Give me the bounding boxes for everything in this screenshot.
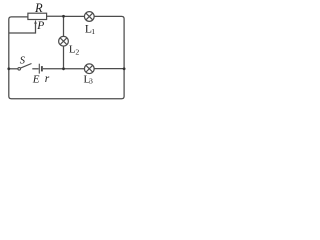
lamp L2 xyxy=(59,36,69,46)
battery E short plate xyxy=(41,66,43,71)
wire node to lamp L2 top xyxy=(63,16,65,36)
wire node to lamp L1 xyxy=(64,15,85,17)
svg-text:r: r xyxy=(45,73,50,85)
wire left rail lower + bottom + right rail lower xyxy=(9,69,124,99)
wire left rail to switch xyxy=(9,68,18,70)
wire right rail upper + top-right xyxy=(94,16,124,68)
wire lamp L2 bottom to junction xyxy=(63,46,65,69)
wire lamp L3 to right rail xyxy=(94,68,124,70)
node center junction (dot) xyxy=(62,67,65,70)
battery E long plate xyxy=(38,64,40,74)
lamp L3 xyxy=(84,64,94,74)
svg-text:2: 2 xyxy=(75,47,79,56)
svg-text:3: 3 xyxy=(89,77,93,86)
wire top-left + left rail upper xyxy=(9,17,28,69)
svg-text:S: S xyxy=(20,55,26,66)
wire slider branch xyxy=(9,23,36,33)
svg-text:P: P xyxy=(36,20,44,32)
svg-text:E: E xyxy=(32,74,40,86)
node right rail (junction dot) xyxy=(123,67,126,70)
lamp L1 xyxy=(84,12,94,22)
slider arrow P xyxy=(34,20,37,24)
svg-text:R: R xyxy=(34,1,43,15)
node top (junction dot) xyxy=(62,15,65,18)
switch S xyxy=(18,64,32,71)
svg-text:1: 1 xyxy=(91,27,95,36)
wire junction to lamp L3 xyxy=(64,68,85,70)
resistor R (rheostat box) xyxy=(28,13,47,19)
wire switch to battery xyxy=(32,68,38,70)
wire rheostat to node xyxy=(47,15,64,17)
wire battery to junction xyxy=(43,68,64,70)
node left rail (junction dot) xyxy=(7,67,10,70)
